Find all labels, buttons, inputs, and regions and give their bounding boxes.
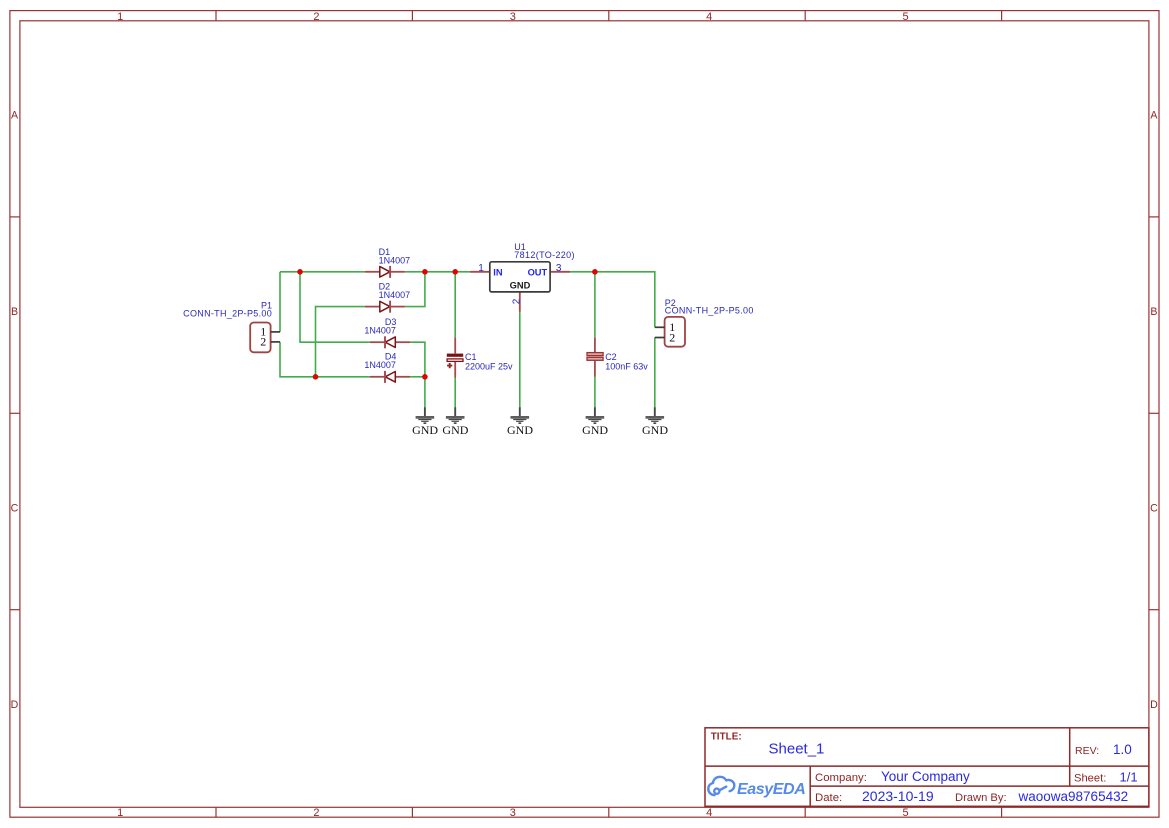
- svg-text:5: 5: [903, 11, 909, 23]
- svg-text:B: B: [1150, 306, 1157, 318]
- svg-text:1N4007: 1N4007: [364, 325, 396, 335]
- svg-text:A: A: [11, 110, 19, 122]
- svg-text:1: 1: [117, 11, 123, 23]
- svg-text:GND: GND: [412, 423, 438, 437]
- svg-text:GND: GND: [510, 281, 531, 291]
- svg-text:1N4007: 1N4007: [364, 360, 396, 370]
- frame column labels top: [117, 11, 909, 23]
- svg-text:IN: IN: [493, 268, 503, 278]
- svg-text:2: 2: [313, 11, 319, 23]
- junction at bottom AC rail / D2 branch: [313, 374, 319, 380]
- wire D3 row: [300, 272, 370, 342]
- ground symbol G2 (under C1): [442, 407, 468, 437]
- capacitor C2: [587, 338, 648, 377]
- ground symbol G1 (under D3/D4 branch): [412, 407, 438, 437]
- svg-text:2023-10-19: 2023-10-19: [862, 788, 934, 804]
- ground symbol G5 (under P2 pin2): [642, 407, 668, 437]
- svg-text:2: 2: [669, 330, 675, 344]
- svg-text:1: 1: [117, 807, 123, 819]
- diode D4 (mirrored): [364, 351, 410, 383]
- svg-text:TITLE:: TITLE:: [711, 732, 742, 743]
- svg-text:B: B: [11, 306, 18, 318]
- svg-text:3: 3: [510, 11, 516, 23]
- svg-text:C2: C2: [605, 352, 617, 362]
- svg-text:C1: C1: [465, 352, 477, 362]
- wire U1 out rail to P2: [570, 272, 655, 328]
- svg-text:Sheet:: Sheet:: [1074, 772, 1106, 784]
- regulator U1: [470, 242, 575, 312]
- svg-text:2: 2: [313, 807, 319, 819]
- wire P1 pin2 down and bottom rail: [280, 342, 370, 377]
- ground symbol G4 (under C2): [582, 407, 608, 437]
- connector P2: [655, 298, 754, 347]
- svg-text:D: D: [11, 699, 19, 711]
- svg-text:3: 3: [510, 807, 516, 819]
- svg-text:1.0: 1.0: [1113, 742, 1132, 757]
- svg-text:OUT: OUT: [528, 268, 548, 278]
- svg-text:2200uF 25v: 2200uF 25v: [465, 362, 513, 372]
- svg-text:1N4007: 1N4007: [379, 255, 411, 265]
- svg-text:Your Company: Your Company: [881, 769, 970, 784]
- svg-text:7812(TO-220): 7812(TO-220): [514, 250, 575, 260]
- svg-text:GND: GND: [507, 423, 533, 437]
- svg-text:C: C: [1150, 502, 1158, 514]
- svg-text:1N4007: 1N4007: [379, 290, 411, 300]
- wire U1 gnd pin down: [519, 312, 521, 407]
- frame row labels right: [1150, 110, 1158, 711]
- capacitor C1 (polarized): [447, 338, 513, 378]
- svg-text:100nF 63v: 100nF 63v: [605, 362, 648, 372]
- wire P2 pin2 to GND: [654, 338, 656, 408]
- svg-text:EasyEDA: EasyEDA: [737, 781, 805, 798]
- svg-text:D: D: [1150, 699, 1158, 711]
- svg-text:5: 5: [903, 807, 909, 819]
- wire C2 branch: [594, 272, 596, 408]
- svg-text:GND: GND: [642, 423, 668, 437]
- junction at AC input rail / D3 branch: [297, 269, 303, 275]
- EasyEDA logo cloud: [708, 777, 734, 795]
- junction at rectified rail / D2 cathode: [422, 269, 428, 275]
- wire P1 pin1 up: [279, 272, 281, 332]
- wire D2 row: [316, 307, 365, 377]
- ground symbol G3 (under U1 pin2): [507, 407, 533, 437]
- svg-text:GND: GND: [582, 423, 608, 437]
- svg-text:Date:: Date:: [815, 792, 842, 804]
- svg-text:CONN-TH_2P-P5.00: CONN-TH_2P-P5.00: [665, 306, 754, 316]
- svg-text:GND: GND: [442, 423, 468, 437]
- svg-text:CONN-TH_2P-P5.00: CONN-TH_2P-P5.00: [183, 309, 272, 319]
- diode D3 (mirrored): [364, 317, 410, 349]
- svg-text:C: C: [11, 502, 19, 514]
- wire D3 cathode to GND branch: [410, 342, 425, 407]
- svg-text:REV:: REV:: [1075, 745, 1099, 757]
- svg-text:3: 3: [556, 263, 562, 274]
- svg-text:A: A: [1150, 110, 1158, 122]
- junction at D4 cathode / ground branch: [422, 374, 428, 380]
- svg-text:2: 2: [512, 298, 523, 304]
- frame row labels left: [11, 110, 19, 711]
- frame column labels bottom: [117, 807, 909, 819]
- junction at output rail / C2: [592, 269, 598, 275]
- wire D2 cathode up to rail: [405, 272, 425, 307]
- svg-text:waoowa98765432: waoowa98765432: [1018, 789, 1129, 804]
- svg-text:4: 4: [706, 11, 712, 23]
- svg-text:1: 1: [478, 263, 484, 274]
- svg-text:Company:: Company:: [815, 772, 867, 784]
- svg-text:1/1: 1/1: [1120, 769, 1138, 784]
- wire top rail from P1 pin1 to U1: [280, 271, 470, 273]
- svg-text:Drawn By:: Drawn By:: [955, 792, 1007, 804]
- connector P1: [183, 301, 280, 353]
- wire C1 branch: [454, 272, 456, 408]
- svg-text:Sheet_1: Sheet_1: [769, 741, 825, 758]
- svg-text:2: 2: [260, 335, 266, 349]
- diode D2: [365, 281, 410, 312]
- diode D1: [365, 247, 410, 278]
- svg-text:4: 4: [706, 807, 712, 819]
- junction at rectified rail / C1: [452, 269, 458, 275]
- wire D4 row right: [410, 376, 425, 378]
